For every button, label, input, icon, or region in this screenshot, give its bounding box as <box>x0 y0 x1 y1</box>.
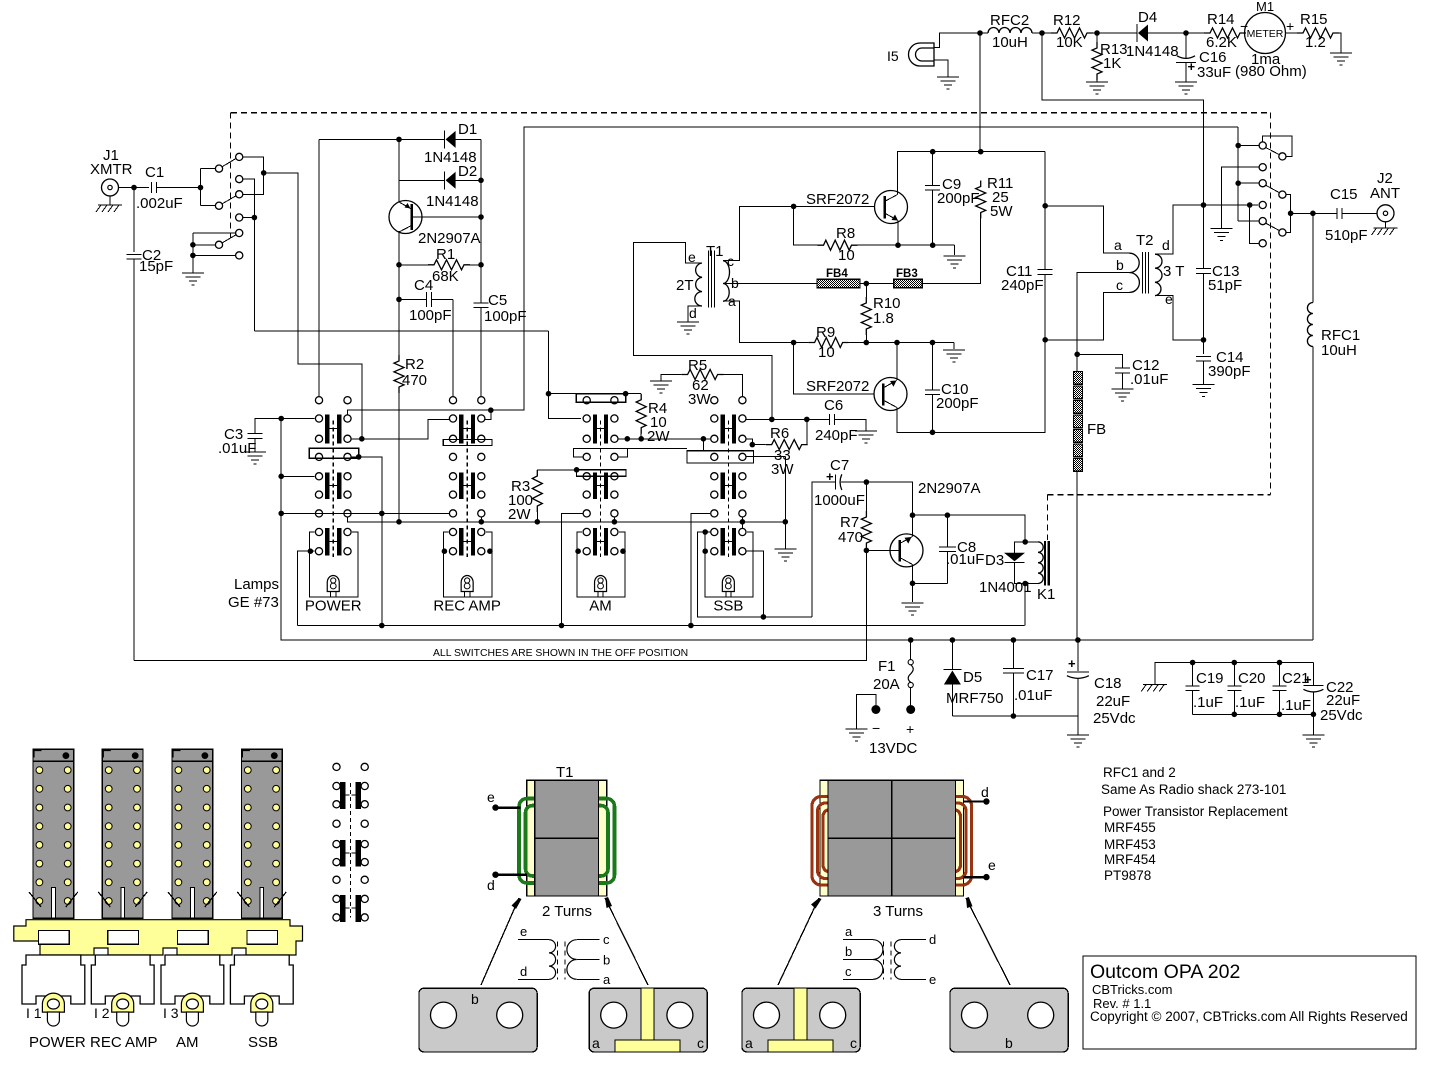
node junction ssb drop <box>688 623 694 629</box>
svg-text:e: e <box>487 789 495 805</box>
T1 core plates <box>527 780 535 896</box>
switch SSB row0 contacts <box>711 397 718 404</box>
svg-text:RFC2: RFC2 <box>990 12 1029 29</box>
switch mounting board <box>14 920 303 955</box>
diode D2 1N4148 <box>444 171 446 189</box>
svg-text:I 2: I 2 <box>94 1005 110 1021</box>
switch body 1 <box>22 955 85 1004</box>
node junction C2 top <box>131 185 137 191</box>
relay ground contact set <box>193 232 236 234</box>
switch SSB contact group 1 <box>721 415 725 444</box>
capacitor C13 51pF <box>1203 205 1205 269</box>
node junction C8 top <box>945 512 951 518</box>
wire moved5 up <box>1286 213 1291 232</box>
svg-text:.01uF: .01uF <box>1014 687 1052 704</box>
node junction supply <box>978 149 984 155</box>
switch SSB row3 contacts <box>711 510 718 517</box>
capacitor C8 .01uF <box>946 515 948 547</box>
svg-text:METER: METER <box>1247 28 1284 40</box>
capacitor C3 .01uF <box>248 433 263 435</box>
lamp AM <box>595 576 607 592</box>
relay contact pivot 1 <box>215 165 222 172</box>
capacitor C20 .1uF <box>1233 663 1235 687</box>
node junction relay NC <box>252 215 258 221</box>
relay out moved 5 <box>1279 229 1286 236</box>
ground at Q3 <box>902 602 924 604</box>
node junction F1 top <box>908 637 914 643</box>
package Q part ac 1 <box>589 988 707 1052</box>
wire down to POWER row0 <box>318 139 320 396</box>
svg-text:a: a <box>745 1035 753 1051</box>
switch AM free contacts row <box>583 453 590 460</box>
wire x399 collector down <box>398 231 400 355</box>
switch body 2 <box>91 955 154 1004</box>
svg-text:R15: R15 <box>1300 11 1328 28</box>
connector J2 ANT <box>1377 205 1394 222</box>
ground at C16 <box>1175 81 1197 83</box>
svg-text:.1uF: .1uF <box>1281 697 1311 714</box>
lamp holder 2 <box>112 993 134 1025</box>
svg-text:AM: AM <box>589 598 612 615</box>
lamp holder 1 <box>42 993 64 1025</box>
ground at R8 <box>944 255 966 257</box>
svg-text:470: 470 <box>838 529 863 546</box>
node junction C17 bottom <box>1011 713 1017 719</box>
relay out contact 1 <box>1259 142 1266 149</box>
wire AM free loop <box>574 448 687 457</box>
svg-text:33uF: 33uF <box>1197 64 1231 81</box>
wire relay NO bus <box>243 157 264 194</box>
fuse F1 20A <box>910 640 912 660</box>
node junction C21 bottom <box>1277 712 1283 718</box>
svg-text:10: 10 <box>818 344 835 361</box>
svg-text:D1: D1 <box>458 121 477 138</box>
ground at C12 <box>1112 388 1134 390</box>
switch REC AMP free contacts row <box>449 453 456 460</box>
wire Q3 emitter lead <box>912 515 914 536</box>
switch SSB lamp box <box>705 532 753 597</box>
lamp holder 3 <box>181 993 203 1025</box>
svg-text:2T: 2T <box>676 277 694 294</box>
wire POWER row1 to rail 410 <box>348 127 1239 415</box>
svg-text:a: a <box>603 972 611 987</box>
svg-text:20A: 20A <box>873 676 900 693</box>
capacitor C9 200pF <box>932 152 934 186</box>
wire R12 to D4 <box>1093 32 1137 34</box>
svg-text:XMTR: XMTR <box>90 161 133 178</box>
svg-text:T1: T1 <box>706 243 724 260</box>
wire FB3 to R11 bottom <box>922 213 981 284</box>
svg-text:6.2K: 6.2K <box>1206 34 1237 51</box>
relay out contact 6 <box>1259 240 1266 247</box>
wire Q2 emitter up <box>896 379 898 382</box>
resistor R3 100 2W <box>536 512 538 522</box>
svg-text:CBTricks.com: CBTricks.com <box>1092 982 1172 997</box>
resistor R9 10 <box>809 338 849 348</box>
svg-text:2 Turns: 2 Turns <box>542 903 592 920</box>
T2 core plates <box>820 780 828 896</box>
node junction relay drop <box>359 436 365 442</box>
svg-text:25Vdc: 25Vdc <box>1093 710 1136 727</box>
physical switch tower 1 <box>33 749 74 918</box>
svg-text:.1uF: .1uF <box>1235 694 1265 711</box>
node junction C21 <box>1277 660 1283 666</box>
svg-text:POWER: POWER <box>29 1034 86 1051</box>
decoupling block C19-C22 top rail <box>1155 663 1313 684</box>
capacitor C22 22uF 25Vdc <box>1312 663 1314 686</box>
wire C19 block bottom rail <box>1193 713 1314 715</box>
ground at C18 <box>1077 716 1079 735</box>
wire relay output to C15 <box>1291 212 1337 214</box>
capacitor C5 100pF <box>474 302 489 304</box>
node junction ssb rail <box>740 519 746 525</box>
capacitor C16 33uF <box>1185 33 1187 59</box>
svg-text:.01uF: .01uF <box>946 551 984 568</box>
terminal 13VDC plus <box>906 705 915 714</box>
node junction feed REC AMP <box>488 407 494 413</box>
svg-text:c: c <box>1116 277 1123 293</box>
node junction Q3 emitter top <box>910 512 916 518</box>
node junction C11 bottom <box>1042 337 1048 343</box>
wire relay pivots <box>200 169 202 206</box>
svg-text:3W: 3W <box>688 391 711 408</box>
svg-text:ALL SWITCHES ARE SHOWN IN THE: ALL SWITCHES ARE SHOWN IN THE OFF POSITI… <box>433 648 688 659</box>
svg-text:FB: FB <box>1087 421 1106 438</box>
resistor R15 <box>1286 32 1298 34</box>
node junction C16 top <box>1183 30 1189 36</box>
wire Q2 collector down <box>897 340 1045 433</box>
node junction R10 bottom <box>864 340 870 346</box>
svg-text:+: + <box>1286 18 1294 34</box>
wire SSB g3 top right stub <box>741 522 743 528</box>
svg-text:c: c <box>603 932 610 947</box>
wire J1 ground stem <box>109 196 111 205</box>
svg-text:SSB: SSB <box>248 1034 278 1051</box>
svg-text:1.2: 1.2 <box>1305 34 1326 51</box>
svg-text:470: 470 <box>402 372 427 389</box>
node junction AM toprect feed <box>546 391 552 397</box>
svg-text:2W: 2W <box>647 428 670 445</box>
wire I5 ground stem <box>934 60 948 77</box>
capacitor C19 .1uF <box>1192 663 1194 687</box>
relay out moved 1 <box>1279 153 1286 160</box>
ground at R13 <box>1086 81 1108 83</box>
resistor R5 62 3W <box>661 375 682 382</box>
wire T2-e <box>1155 296 1204 340</box>
svg-text:3W: 3W <box>771 461 794 478</box>
wire rail 660 <box>134 659 867 661</box>
relay out contact 2 <box>1259 164 1266 171</box>
diode D3 1N4001 <box>1015 542 1026 553</box>
switch AM lamp box <box>577 532 625 597</box>
node junction contact1 <box>1235 143 1241 149</box>
svg-text:a: a <box>592 1035 600 1051</box>
T1 winding right <box>575 799 615 884</box>
svg-text:+: + <box>1068 656 1076 671</box>
svg-text:d: d <box>929 932 936 947</box>
node junction R13 top <box>1094 30 1100 36</box>
resistor R1 68K <box>399 264 428 266</box>
transistor Q3 2N2907A <box>890 534 923 567</box>
svg-text:RFC1 and 2: RFC1 and 2 <box>1103 765 1176 780</box>
wire relay NC bus <box>243 179 254 331</box>
svg-text:240pF: 240pF <box>1001 277 1044 294</box>
wire rail 625.5 <box>298 625 1025 627</box>
svg-text:e: e <box>929 972 936 987</box>
ground at 13VDC <box>846 728 868 730</box>
switch AM contact group 3 <box>593 528 597 556</box>
node junction K1 bottom <box>1022 581 1028 587</box>
ground at C22 <box>1312 714 1314 735</box>
wire Q2 base drop <box>794 343 874 394</box>
switch AM top slider bar <box>576 394 625 403</box>
T1 lead d <box>492 872 498 878</box>
wire SSB row3 right stub <box>741 517 743 528</box>
chassis ground at J1 <box>98 204 122 206</box>
svg-text:b: b <box>1116 257 1124 273</box>
capacitor C18 22uF 25Vdc <box>1077 640 1079 671</box>
ground at C14 <box>1193 384 1215 386</box>
T1 winding left <box>519 799 559 884</box>
ground at R15 <box>1330 52 1352 54</box>
svg-text:C19: C19 <box>1196 670 1224 687</box>
node junction R9 left <box>791 340 797 346</box>
wire moved3 down <box>1286 195 1291 214</box>
wire RFC2 to R12 <box>1032 32 1051 34</box>
wire R9 line right <box>849 342 955 344</box>
ground at relay <box>182 272 204 274</box>
svg-text:e: e <box>1165 291 1173 307</box>
resistor R4 10 2W <box>626 393 642 395</box>
svg-text:MRF750: MRF750 <box>946 690 1004 707</box>
node junction contact3 <box>1235 180 1241 186</box>
transformer T1 <box>695 263 702 306</box>
transistor Q1 SRF2072 <box>875 191 908 224</box>
node junction T1e <box>769 417 775 423</box>
T2 arrow right <box>966 898 1010 985</box>
relay out moved 3 <box>1279 191 1286 198</box>
svg-text:51pF: 51pF <box>1208 277 1242 294</box>
wire x399 vertical D1-D2 <box>398 139 400 202</box>
svg-text:REC AMP: REC AMP <box>90 1034 158 1051</box>
relay contact pivot 2 <box>215 202 222 209</box>
T1 arrow right <box>605 898 648 985</box>
svg-text:K1: K1 <box>1037 586 1055 603</box>
svg-text:C1: C1 <box>145 164 164 181</box>
wire C4 to switch REC AMP <box>452 299 454 396</box>
wire C7 right to junction <box>841 481 866 483</box>
switch REC AMP linkage dashed <box>466 421 468 558</box>
svg-text:+: + <box>1188 59 1196 74</box>
diode D1 1N4148 <box>444 130 446 148</box>
resistor R10 1.8 <box>865 284 867 298</box>
physical switch tower 2 <box>102 749 143 918</box>
capacitor C15 510pF <box>1336 208 1338 219</box>
lamp SSB <box>722 576 734 592</box>
relay contact NC 2 <box>236 214 243 221</box>
node junction ssb box lower <box>702 548 708 554</box>
svg-text:PT9878: PT9878 <box>1104 868 1151 883</box>
svg-text:c: c <box>845 964 852 979</box>
relay contact NO 2 <box>236 191 243 198</box>
relay contact NO 1 <box>236 153 243 160</box>
svg-text:d: d <box>520 964 527 979</box>
node junction slider edge <box>356 454 362 460</box>
node junction C7-R7 <box>864 479 870 485</box>
ground at I5 <box>937 76 959 78</box>
ground at T1 d <box>677 321 699 323</box>
wire Q3 collector down <box>912 565 914 603</box>
wire T1-d ground <box>688 306 702 322</box>
board hole 1 <box>39 930 70 944</box>
wire x481 vertical right rail <box>480 139 482 303</box>
node junction am g1 right <box>625 436 631 442</box>
svg-text:22uF: 22uF <box>1096 693 1130 710</box>
svg-text:Lamps: Lamps <box>234 576 279 593</box>
relay ground pivot <box>193 244 215 246</box>
resistor R11 25 5W <box>976 181 986 219</box>
node junction RFC2 left <box>977 30 983 36</box>
wire T1-b to FB4 <box>723 283 817 285</box>
capacitor C7 1000uF <box>831 481 836 483</box>
svg-text:.01uF: .01uF <box>1130 371 1168 388</box>
relay blade 2 <box>223 196 237 204</box>
switch body 3 <box>161 955 224 1004</box>
T2 arrow left <box>778 898 819 985</box>
wire D2 left <box>399 179 445 181</box>
capacitor C21 .1uF <box>1279 663 1281 687</box>
svg-text:e: e <box>988 857 996 873</box>
wire T2-d <box>1155 205 1258 254</box>
wire K1 bottom to rail <box>1024 584 1026 626</box>
resistor R7 470 <box>865 482 867 511</box>
wire down from R12-left junction <box>1042 33 1204 205</box>
node junction C4 left <box>396 297 402 303</box>
wire collector rail to T2a <box>1044 152 1046 206</box>
wire C7 left feed <box>812 482 831 617</box>
inductor RFC2 <box>988 28 1032 34</box>
wire junction down to RF rail <box>979 33 981 152</box>
svg-text:200pF: 200pF <box>937 190 980 207</box>
svg-text:C5: C5 <box>488 292 507 309</box>
switch AM mid slider bar <box>577 470 626 477</box>
svg-text:10K: 10K <box>1056 34 1083 51</box>
wire ground branch right of rail <box>784 456 786 549</box>
node junction relay out <box>261 170 267 176</box>
svg-text:15pF: 15pF <box>139 258 173 275</box>
T1 winding diagram <box>518 939 549 941</box>
svg-text:C4: C4 <box>414 277 433 294</box>
node junction ssb g1 left <box>701 436 707 442</box>
switch SSB free contacts row <box>711 453 718 460</box>
wire C11 bottom to T2c <box>1045 292 1129 339</box>
node junction rail-left row2 <box>278 474 284 480</box>
svg-text:Copyright © 2007, CBTricks.com: Copyright © 2007, CBTricks.com All Right… <box>1090 1009 1408 1024</box>
svg-text:3 Turns: 3 Turns <box>873 903 923 920</box>
node junction C20 bottom <box>1232 712 1238 718</box>
svg-text:R14: R14 <box>1207 11 1235 28</box>
switch POWER row3 contacts <box>315 510 322 517</box>
resistor R8 10 <box>794 206 818 245</box>
board hole 4 <box>247 930 278 944</box>
svg-text:D4: D4 <box>1138 9 1157 26</box>
ground at contact2 <box>1211 227 1233 229</box>
ground at R5 <box>650 380 672 382</box>
ground at C3 <box>244 451 266 453</box>
relay out blade 3 <box>1266 185 1279 192</box>
node junction K1 top <box>1022 539 1028 545</box>
node junction Q1 base <box>791 204 797 210</box>
T2 winding diagram <box>843 939 873 941</box>
switch SSB linkage dashed <box>727 421 729 558</box>
node junction T2a feed <box>1042 203 1048 209</box>
ground at R9 <box>943 349 965 351</box>
node junction D2 right <box>478 178 484 184</box>
svg-text:R8: R8 <box>836 225 855 242</box>
capacitor C1 .002uF <box>151 182 153 193</box>
resistor R6 33 3W <box>746 439 766 445</box>
inductor RFC1 <box>1312 213 1314 302</box>
svg-text:Outcom OPA 202: Outcom OPA 202 <box>1090 961 1240 983</box>
node junction rail-left row3 <box>278 511 284 517</box>
resistor R12 <box>1051 28 1093 38</box>
svg-text:GE #73: GE #73 <box>228 594 279 611</box>
ground at C6 <box>855 430 877 432</box>
wire T2-b <box>1077 273 1131 355</box>
node junction R10 top <box>864 281 870 287</box>
node junction C19 <box>1190 660 1196 666</box>
physical switch tower 3 <box>172 749 213 918</box>
wire POWER free contact right <box>351 457 382 626</box>
svg-text:1.8: 1.8 <box>873 310 894 327</box>
capacitor C6 240pF <box>807 418 830 420</box>
node junction C9 bottom <box>930 242 936 248</box>
dashed linkage bottom right <box>1047 494 1270 496</box>
relay out blade 5 <box>1266 223 1279 230</box>
node junction C20 <box>1232 660 1238 666</box>
svg-text:SSB: SSB <box>713 598 743 615</box>
node junction FB top <box>1074 352 1080 358</box>
svg-text:5W: 5W <box>990 203 1013 220</box>
node junction C9 top <box>930 149 936 155</box>
mini switch symbol <box>333 763 340 770</box>
wire SSB outer loop <box>698 532 812 617</box>
wire SSB lamp right drop <box>746 551 763 617</box>
svg-text:1N4148: 1N4148 <box>1126 43 1179 60</box>
switch SSB slider bar <box>687 451 753 463</box>
T2 lead d <box>983 798 989 804</box>
capacitor C10 200pF <box>932 343 934 390</box>
lamp holder 4 <box>251 993 273 1025</box>
relay ground blade <box>223 235 237 243</box>
svg-text:3 T: 3 T <box>1163 263 1184 280</box>
svg-text:Same As Radio shack 273-101: Same As Radio shack 273-101 <box>1101 782 1286 797</box>
relay out contact 4 <box>1259 201 1266 208</box>
node junction power drop <box>379 623 385 629</box>
capacitor C4 100pF <box>399 298 427 300</box>
diode D4 1N4148 <box>1136 24 1138 42</box>
wire R7 bottom rail down <box>865 550 867 660</box>
svg-text:R2: R2 <box>405 356 424 373</box>
resistor R14 <box>1186 32 1204 34</box>
svg-text:SRF2072: SRF2072 <box>806 191 869 208</box>
capacitor C14 390pF <box>1196 355 1211 357</box>
switch REC AMP contact group 2 <box>459 472 463 499</box>
switch REC AMP row0 contacts <box>449 397 456 404</box>
wire rail 521.8 <box>348 517 786 522</box>
svg-text:C20: C20 <box>1238 670 1266 687</box>
svg-text:R9: R9 <box>816 324 835 341</box>
